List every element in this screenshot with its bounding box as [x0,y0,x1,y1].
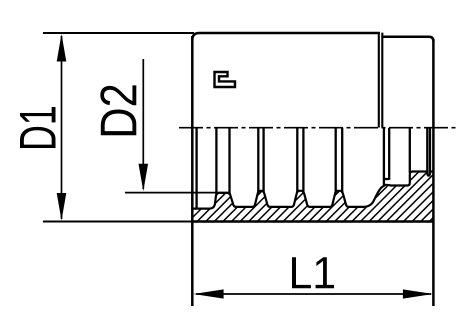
serration groove wall at x=383.9 (hose-stop rib left) [383,128,385,186]
serration groove wall at x=196.6 (lead-in sliver) [195,128,197,209]
D2 arrowhead [139,164,149,192]
right edge + L1 right extension [432,39,435,306]
D1 arrowhead bottom [57,193,67,221]
hose-stop rib tick at y=179 [384,178,389,180]
body outline [191,33,434,306]
serration groove wall at x=263.6 (channel 2 left) [262,128,264,193]
hatch fill (45-degree section lines) [150,150,472,260]
D1 dimension line with arrows [61,36,63,219]
L1 dimension line with arrows [196,293,431,295]
L1 arrowhead left [193,289,223,298]
dimension label D1 (rotated) [20,107,56,148]
serration groove wall at x=258.3 (rib 2 left) [257,128,259,193]
top edge of barrel with rounded top-left corner [192,33,380,40]
D1 arrowhead top [57,34,67,62]
L1 arrowhead right [403,289,433,298]
bore line / D2 extension line [125,192,230,194]
D1 top extension line [43,32,194,34]
serration groove wall at x=303.4 (channel 3 left) [302,128,304,193]
stamped logo on barrel [215,72,236,87]
serration groove wall at x=216.4 (rib 1 left) [215,128,217,195]
serration groove wall at x=335.7 (rib 4 left) [335,128,337,193]
bore step wall at x=409.8 [409,128,411,173]
serration groove wall at x=342.2 (channel 4 left) [341,128,343,193]
D2 dimension line with bottom arrow [142,59,144,189]
collar top edge with rounded top-right corner [382,37,433,42]
serration vertical walls [197,128,430,209]
serration groove wall at x=389.2 (hose-stop rib right) [388,128,390,180]
serration groove wall at x=297.3 (rib 3 left) [296,128,298,193]
collar step lines (upper half) [379,33,383,128]
bottom edge [191,220,434,223]
hatch boundary (wavy top of section) [191,172,434,209]
dimension label D2 (rotated) [100,85,136,135]
dimension label L1 [292,257,334,288]
D1 bottom extension line [43,221,194,223]
centerline (dash-dot) [179,127,457,129]
left edge + L1 left extension [191,36,194,306]
collar groove wall at x=427.3 [426,128,428,174]
serration groove wall at x=229.5 (channel 1 left) [228,128,230,195]
collar groove wall at x=430.0 [429,128,431,174]
